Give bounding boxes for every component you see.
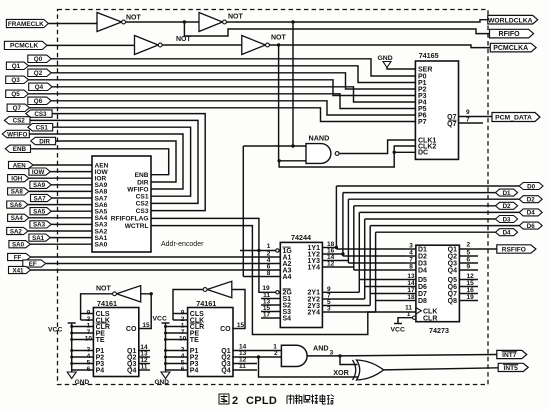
svg-text:15: 15 (467, 280, 475, 287)
svg-text:D8: D8 (418, 298, 427, 305)
svg-text:RFIFOFLAG: RFIFOFLAG (111, 216, 149, 223)
svg-text:NOT: NOT (271, 35, 287, 42)
svg-text:9: 9 (467, 264, 471, 271)
svg-text:SA3: SA3 (33, 222, 46, 229)
svg-text:ENB: ENB (135, 172, 149, 179)
svg-text:SA7: SA7 (34, 195, 47, 202)
svg-text:13: 13 (407, 273, 415, 280)
svg-text:XOR: XOR (333, 368, 349, 377)
svg-text:2: 2 (232, 395, 238, 407)
svg-text:18: 18 (407, 294, 415, 301)
svg-text:CO: CO (220, 326, 231, 333)
svg-text:D3: D3 (503, 216, 511, 223)
svg-text:D2: D2 (527, 197, 535, 204)
svg-text:SA5: SA5 (33, 209, 46, 216)
svg-text:7: 7 (409, 257, 413, 264)
svg-text:Q7: Q7 (13, 105, 22, 112)
svg-text:VCC: VCC (48, 327, 62, 334)
svg-text:Q2: Q2 (448, 253, 457, 260)
svg-text:P4: P4 (190, 367, 199, 374)
svg-text:4: 4 (409, 250, 413, 257)
svg-text:SA4: SA4 (11, 215, 24, 222)
svg-text:SA8: SA8 (11, 189, 24, 196)
svg-text:GND: GND (75, 379, 90, 386)
svg-text:Addr-encoder: Addr-encoder (161, 241, 204, 248)
svg-text:CPLD: CPLD (246, 395, 277, 407)
svg-text:Q8: Q8 (448, 298, 457, 305)
svg-text:CS1: CS1 (36, 125, 49, 132)
svg-text:12: 12 (467, 273, 475, 280)
svg-text:74161: 74161 (196, 299, 216, 308)
svg-text:CLR: CLR (423, 315, 437, 322)
svg-text:1Y4: 1Y4 (308, 264, 321, 271)
svg-text:Q5: Q5 (11, 91, 20, 98)
svg-text:IOW: IOW (32, 169, 45, 176)
svg-text:A4: A4 (283, 274, 292, 281)
svg-text:AEN: AEN (13, 162, 27, 169)
svg-text:74273: 74273 (429, 326, 449, 335)
svg-text:19: 19 (262, 285, 270, 292)
svg-text:TE: TE (190, 337, 199, 344)
svg-text:D3: D3 (418, 260, 427, 267)
svg-text:RSFIFO: RSFIFO (502, 247, 526, 254)
svg-text:74165: 74165 (419, 51, 439, 60)
svg-text:NAND: NAND (309, 134, 330, 143)
svg-text:CO: CO (126, 326, 137, 333)
svg-text:5: 5 (467, 250, 471, 257)
svg-text:INT7: INT7 (502, 352, 517, 359)
svg-text:9: 9 (466, 109, 470, 116)
svg-text:S4: S4 (283, 315, 292, 322)
svg-text:CS1: CS1 (136, 194, 149, 201)
svg-text:Q6: Q6 (448, 284, 457, 291)
svg-text:GND: GND (155, 379, 170, 386)
svg-text:SA1: SA1 (32, 235, 45, 242)
svg-text:PCMCLKA: PCMCLKA (493, 45, 528, 52)
svg-text:3: 3 (409, 243, 413, 250)
svg-text:Q4: Q4 (127, 367, 136, 374)
svg-text:74244: 74244 (291, 233, 311, 242)
svg-text:SA6: SA6 (10, 202, 23, 209)
svg-text:Q4: Q4 (221, 367, 230, 374)
svg-text:AND: AND (313, 344, 329, 353)
svg-text:RFIFO: RFIFO (499, 31, 521, 38)
svg-text:VCC: VCC (153, 316, 167, 323)
svg-text:WCTRL: WCTRL (125, 223, 149, 230)
svg-text:74161: 74161 (97, 299, 117, 308)
svg-text:17: 17 (263, 312, 271, 319)
svg-text:Q7: Q7 (447, 121, 456, 128)
svg-text:FRAMECLK: FRAMECLK (8, 21, 44, 28)
svg-text:INT5: INT5 (504, 365, 519, 372)
svg-text:D6: D6 (527, 223, 535, 230)
svg-text:WFIFO: WFIFO (127, 186, 148, 193)
svg-text:CLK: CLK (423, 308, 437, 315)
svg-text:D1: D1 (503, 190, 511, 197)
svg-text:PCM_DATA: PCM_DATA (495, 115, 532, 122)
svg-text:D5: D5 (418, 277, 427, 284)
svg-text:DIR: DIR (137, 179, 149, 186)
svg-text:SA0: SA0 (95, 242, 108, 249)
svg-text:SA9: SA9 (33, 182, 46, 189)
svg-text:X41: X41 (12, 267, 24, 274)
svg-text:8: 8 (409, 264, 413, 271)
svg-text:D4: D4 (503, 230, 511, 237)
svg-text:1: 1 (267, 243, 271, 250)
svg-text:2Y4: 2Y4 (308, 309, 321, 316)
svg-text:Q1: Q1 (12, 63, 21, 70)
svg-text:Q4: Q4 (448, 267, 457, 274)
svg-text:D7: D7 (418, 291, 427, 298)
svg-text:Q6: Q6 (34, 98, 43, 105)
svg-text:TE: TE (96, 337, 105, 344)
svg-text:Q1: Q1 (448, 246, 457, 253)
svg-text:D2: D2 (418, 253, 427, 260)
svg-text:8: 8 (267, 270, 271, 277)
svg-text:D4: D4 (418, 267, 427, 274)
svg-text:Q2: Q2 (34, 70, 43, 77)
svg-text:ENB: ENB (13, 146, 27, 153)
svg-text:15: 15 (237, 322, 245, 329)
svg-text:NOT: NOT (176, 36, 192, 43)
svg-text:P4: P4 (96, 367, 105, 374)
svg-text:7: 7 (466, 117, 470, 124)
svg-text:Q3: Q3 (448, 260, 457, 267)
svg-text:2: 2 (274, 350, 278, 357)
svg-text:P7: P7 (418, 119, 427, 126)
svg-text:2: 2 (467, 242, 471, 249)
svg-text:3: 3 (327, 306, 331, 313)
svg-text:NOT: NOT (228, 14, 244, 21)
svg-text:DC: DC (418, 150, 428, 157)
svg-text:CS3: CS3 (136, 208, 149, 215)
svg-text:D2: D2 (503, 203, 511, 210)
svg-text:11: 11 (141, 364, 148, 371)
svg-text:6: 6 (467, 257, 471, 264)
svg-text:11: 11 (239, 363, 246, 370)
svg-text:14: 14 (407, 280, 415, 287)
svg-text:SA2: SA2 (10, 228, 23, 235)
svg-text:CS3: CS3 (34, 111, 47, 118)
svg-text:D4: D4 (527, 210, 535, 217)
svg-text:DIR: DIR (39, 138, 50, 145)
svg-text:Q0: Q0 (34, 56, 43, 63)
svg-text:NOT: NOT (126, 15, 142, 22)
svg-text:FF: FF (14, 254, 22, 261)
svg-text:SER: SER (418, 66, 432, 73)
svg-text:CS2: CS2 (13, 118, 26, 125)
svg-text:D1: D1 (418, 246, 427, 253)
svg-text:Q3: Q3 (11, 77, 20, 84)
svg-text:17: 17 (407, 287, 415, 294)
svg-text:WORLDCLKA: WORLDCLKA (488, 17, 533, 24)
svg-text:D0: D0 (527, 183, 535, 190)
svg-text:Q5: Q5 (448, 277, 457, 284)
svg-text:12: 12 (327, 261, 335, 268)
svg-text:VCC: VCC (391, 327, 405, 334)
svg-text:16: 16 (467, 287, 475, 294)
svg-text:19: 19 (467, 294, 475, 301)
svg-text:Q7: Q7 (448, 291, 457, 298)
svg-text:NOT: NOT (96, 286, 112, 293)
svg-text:D6: D6 (418, 284, 427, 291)
svg-text:15: 15 (142, 322, 150, 329)
svg-text:PCMCLK: PCMCLK (10, 43, 38, 50)
svg-text:CS2: CS2 (136, 201, 149, 208)
svg-text:SA0: SA0 (12, 242, 25, 249)
svg-text:Q4: Q4 (35, 84, 44, 91)
svg-text:WFIFO: WFIFO (7, 131, 27, 138)
svg-text:EF: EF (29, 261, 37, 268)
svg-text:IOH: IOH (11, 176, 23, 183)
